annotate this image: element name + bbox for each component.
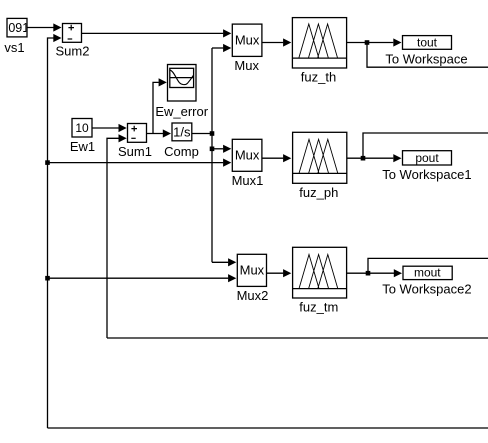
wire vs1 to Sum2 plus <box>27 27 54 29</box>
to-workspace mout <box>403 266 452 279</box>
wire Mux2 output to fuz_tm <box>267 272 284 274</box>
arrowhead into Sum2 plus <box>53 23 61 31</box>
wire bus to Mux2 in1 <box>212 261 228 263</box>
svg-text:Ew1: Ew1 <box>70 139 95 154</box>
svg-text:1/s: 1/s <box>173 124 191 139</box>
arrowhead into fuz_ph <box>283 154 291 162</box>
arrowhead into Mux1 in1 <box>223 145 231 153</box>
fuz_tm baseline <box>293 288 347 290</box>
wire integrator bus vertical <box>211 48 213 262</box>
svg-text:Ew_error: Ew_error <box>155 104 208 119</box>
wire Sum2 output to Mux in1 <box>82 32 224 34</box>
svg-text:pout: pout <box>415 151 439 165</box>
wire Mux1 output to fuz_ph <box>262 157 283 159</box>
mux Mux2 <box>237 254 266 286</box>
svg-text:vs1: vs1 <box>4 40 24 55</box>
arrowhead into Sum1 minus <box>119 134 127 142</box>
sum Sum1 <box>128 124 147 143</box>
arrowhead into scope Ew_error <box>159 78 167 86</box>
fuz_ph baseline <box>293 172 347 174</box>
arrowhead into tout <box>393 38 401 46</box>
wire bus to Mux1 in1 <box>212 148 223 150</box>
svg-text:Mux1: Mux1 <box>232 173 264 188</box>
arrowhead into mout <box>394 269 402 277</box>
svg-text:Mux: Mux <box>240 263 265 278</box>
svg-text:Mux2: Mux2 <box>237 288 269 303</box>
svg-text:Mux: Mux <box>235 32 260 47</box>
wire fuz_th output to tout <box>347 42 394 44</box>
arrowhead into fuz_tm <box>283 269 291 277</box>
svg-text:fuz_tm: fuz_tm <box>299 300 338 315</box>
scope Ew_error <box>168 65 197 102</box>
wire fuz_tm branch up to right edge <box>368 258 488 273</box>
constant Ew1 <box>72 119 92 138</box>
wire Ew1 to Sum1 plus <box>92 127 119 129</box>
arrowhead into Mux1 in2 <box>223 159 231 167</box>
svg-text:To Workspace: To Workspace <box>385 52 467 67</box>
to-workspace tout <box>403 36 452 50</box>
mux Mux1 <box>232 139 262 171</box>
scope screen <box>170 68 194 87</box>
scope sine curve <box>170 70 194 85</box>
fuz_th membership triangles <box>299 24 338 58</box>
svg-text:mout: mout <box>414 266 441 280</box>
to-workspace pout <box>403 151 452 165</box>
wire branch to scope Ew_error <box>153 82 159 133</box>
svg-text:Mux: Mux <box>235 147 260 162</box>
fuz_tm membership triangles <box>299 255 338 289</box>
wire Sum2 minus feedback vertical <box>48 38 54 428</box>
svg-text:Comp: Comp <box>164 144 199 159</box>
wire Sum1 feedback bottom to right edge <box>107 337 488 339</box>
junction dot tout branch <box>365 40 370 45</box>
minus sign Sum2 <box>68 38 73 40</box>
arrowhead into Mux in1 <box>223 29 231 37</box>
arrowhead into Mux in2 <box>223 44 231 52</box>
wire Sum1 minus feedback <box>107 138 119 338</box>
fuzzy controller fuz_ph <box>293 132 347 183</box>
arrowhead into fuz_th <box>283 38 291 46</box>
wire fuz_th branch down to right edge <box>367 43 488 68</box>
wire fuz_ph output to pout <box>347 157 394 159</box>
junction dot pout branch <box>361 156 366 161</box>
minus sign Sum1 <box>131 137 135 139</box>
svg-text:To Workspace2: To Workspace2 <box>382 282 471 297</box>
junction dot mout branch <box>366 271 371 276</box>
svg-text:fuz_ph: fuz_ph <box>299 185 338 200</box>
arrowhead into Comp <box>163 129 171 137</box>
wire fuz_tm output to mout <box>347 272 394 274</box>
fuz_ph membership triangles <box>299 139 338 173</box>
junction dot Comp output tee <box>210 131 215 136</box>
arrowhead into Sum2 minus <box>53 34 61 42</box>
svg-text:Sum1: Sum1 <box>118 144 152 159</box>
svg-text:To Workspace1: To Workspace1 <box>382 167 471 182</box>
svg-text:Sum2: Sum2 <box>56 44 90 59</box>
fuzzy controller fuz_tm <box>293 247 347 298</box>
wire Comp output to vertical bus <box>192 133 212 135</box>
wire bus to Mux in2 <box>212 47 223 49</box>
svg-text:tout: tout <box>417 36 438 50</box>
fuzzy controller fuz_th <box>292 18 346 68</box>
constant vs1 <box>7 18 27 37</box>
wire Mux output to fuz_th <box>262 42 283 44</box>
svg-text:fuz_th: fuz_th <box>301 70 336 85</box>
arrowhead into pout <box>393 154 401 162</box>
junction dot Mux2-in2 branch <box>45 276 50 281</box>
svg-text:10: 10 <box>75 121 89 135</box>
wire Sum1 output to Comp <box>147 133 164 135</box>
scope midline <box>170 77 194 79</box>
sum Sum2 <box>63 24 82 43</box>
arrowhead into Sum1 plus <box>119 124 127 132</box>
integrator Comp <box>172 123 192 141</box>
wire Sum2-feedback branch to Mux2 in2 <box>48 277 229 279</box>
junction dot Mux1-in1 branch <box>210 147 215 152</box>
fuz_th baseline <box>292 57 346 59</box>
mux Mux <box>232 24 262 56</box>
wire Sum2-feedback branch to Mux1 in2 <box>48 162 224 164</box>
junction dot Mux1-in2 branch <box>45 160 50 165</box>
arrowhead into Mux2 in1 <box>228 258 236 266</box>
arrowhead into Mux2 in2 <box>228 274 236 282</box>
plus sign Sum2 <box>68 25 74 31</box>
svg-text:Mux: Mux <box>234 58 259 73</box>
wire bottom feedback to right edge <box>48 427 488 429</box>
plus sign Sum1 <box>131 126 137 132</box>
wire fuz_ph branch up to right edge <box>363 133 488 158</box>
